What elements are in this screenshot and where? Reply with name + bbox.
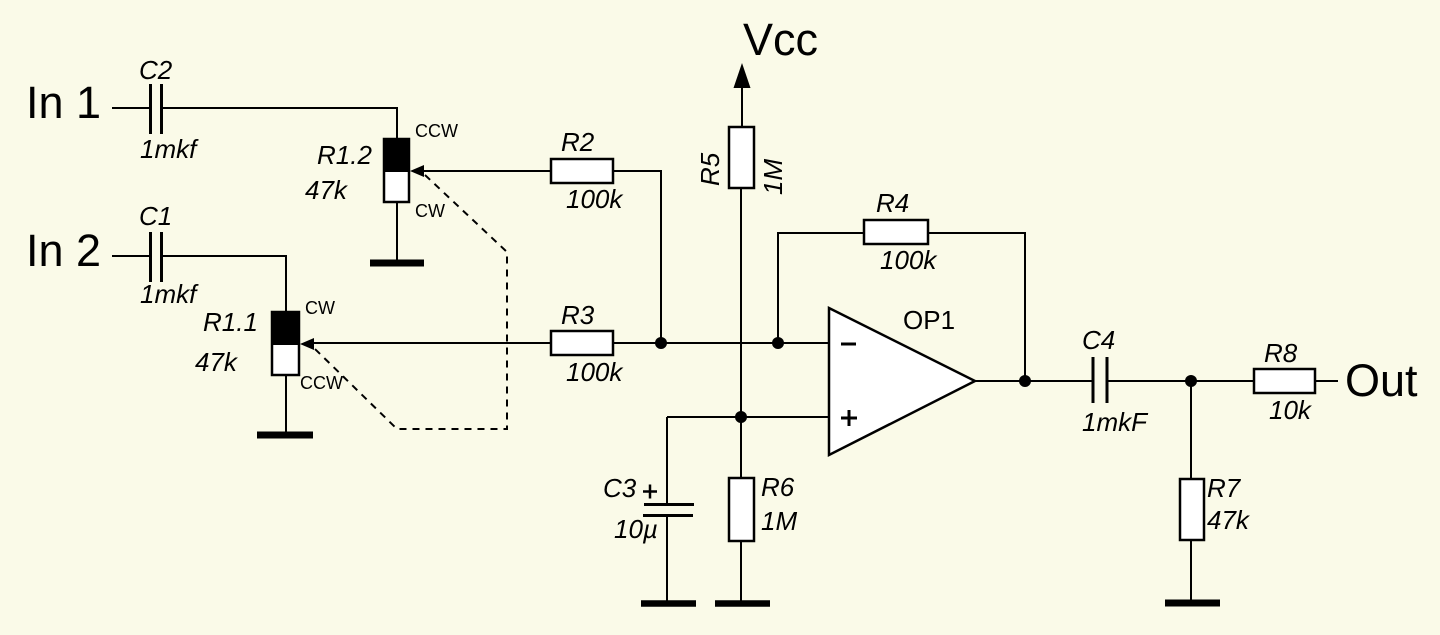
svg-text:CCW: CCW xyxy=(300,373,343,393)
svg-text:10µ: 10µ xyxy=(614,514,658,544)
capacitor C3 xyxy=(643,505,694,516)
wire In1 to C2 xyxy=(112,107,149,109)
svg-text:C3: C3 xyxy=(603,473,637,503)
wire R4 to output node xyxy=(928,233,1025,381)
svg-text:100k: 100k xyxy=(880,245,938,275)
resistor R2 xyxy=(551,159,613,183)
svg-text:R8: R8 xyxy=(1264,338,1298,368)
svg-text:CCW: CCW xyxy=(415,121,458,141)
resistor R7 xyxy=(1180,479,1204,540)
ground under R1.2 xyxy=(370,260,424,267)
svg-text:OP1: OP1 xyxy=(903,305,955,335)
svg-text:CW: CW xyxy=(415,201,445,221)
junction node inverting input / feedback xyxy=(772,337,784,349)
ground under R7 xyxy=(1165,600,1220,607)
svg-text:100k: 100k xyxy=(566,357,624,387)
wire R2 to inverting node xyxy=(613,171,661,343)
capacitor C4 xyxy=(1093,357,1107,403)
potentiometer R1.1 wiper arrow xyxy=(300,338,314,350)
potentiometer R1.2 wiper arrow xyxy=(410,165,424,177)
svg-text:R3: R3 xyxy=(561,300,595,330)
svg-text:C4: C4 xyxy=(1082,325,1115,355)
op-amp minus input symbol xyxy=(841,343,856,346)
wire R1.2 bottom to ground xyxy=(396,202,398,261)
junction node output xyxy=(1019,375,1031,387)
capacitor C1 xyxy=(151,232,162,282)
wire non-inverting node to op-amp + input xyxy=(667,416,829,418)
wire R6 to ground xyxy=(740,541,742,601)
wire C2 to R1.2 top xyxy=(163,108,397,139)
svg-text:47k: 47k xyxy=(195,347,239,377)
junction node output divider xyxy=(1185,375,1197,387)
svg-text:CW: CW xyxy=(305,298,335,318)
wire R8 to Out xyxy=(1315,380,1338,382)
junction node R2/R3 xyxy=(655,337,667,349)
svg-text:In 2: In 2 xyxy=(26,225,101,276)
resistor R8 xyxy=(1254,369,1315,393)
dashed gang link R1.2-R1.1 xyxy=(315,175,507,429)
Vcc arrow xyxy=(734,63,751,127)
wire In2 to C1 xyxy=(112,255,149,257)
svg-text:1M: 1M xyxy=(761,506,797,536)
op-amp plus input symbol xyxy=(841,410,857,426)
wire R5 bottom through crossing to non-inverting node xyxy=(740,188,742,478)
capacitor C3 wire from non-inverting node xyxy=(666,417,668,503)
svg-text:47k: 47k xyxy=(305,175,349,205)
svg-text:1mkf: 1mkf xyxy=(140,134,199,164)
wire C1 to R1.1 top xyxy=(163,256,286,312)
wire R3 to op-amp inverting input xyxy=(613,342,829,344)
svg-text:100k: 100k xyxy=(566,184,624,214)
wire C3 to ground xyxy=(666,517,668,601)
svg-text:R1.1: R1.1 xyxy=(203,307,258,337)
wire op-amp output to C4 xyxy=(975,380,1092,382)
potentiometer R1.1 xyxy=(271,311,300,375)
svg-text:C1: C1 xyxy=(139,201,172,231)
capacitor C2 xyxy=(151,84,162,134)
wire C4 to R8 xyxy=(1108,380,1254,382)
svg-text:R7: R7 xyxy=(1207,473,1242,503)
junction node non-inverting input xyxy=(735,411,747,423)
svg-text:1mkf: 1mkf xyxy=(140,279,199,309)
svg-text:1M: 1M xyxy=(758,159,788,195)
wire R1.1 wiper to R3 xyxy=(314,342,551,344)
resistor R3 xyxy=(551,331,613,355)
resistor R4 xyxy=(864,220,928,244)
resistor R6 xyxy=(729,478,754,541)
ground under R1.1 xyxy=(257,432,313,439)
potentiometer R1.2 xyxy=(383,138,410,202)
wire R1.2 wiper to R2 xyxy=(424,170,551,172)
svg-text:In 1: In 1 xyxy=(26,77,101,128)
svg-text:R5: R5 xyxy=(695,152,725,186)
svg-text:10k: 10k xyxy=(1269,395,1313,425)
svg-text:R1.2: R1.2 xyxy=(317,140,372,170)
wire R1.1 bottom to ground xyxy=(285,375,287,433)
ground under C3 xyxy=(641,600,696,607)
svg-text:R2: R2 xyxy=(561,127,595,157)
wire R7 to ground xyxy=(1190,540,1192,601)
svg-text:C2: C2 xyxy=(139,55,173,85)
ground under R6 xyxy=(715,600,770,607)
svg-text:Vcc: Vcc xyxy=(743,14,818,65)
svg-text:1mkF: 1mkF xyxy=(1082,407,1149,437)
wire output node down to R7 xyxy=(1190,381,1192,479)
capacitor C3 plus sign xyxy=(643,485,657,499)
op-amp OP1 xyxy=(829,308,975,455)
svg-text:Out: Out xyxy=(1345,355,1418,406)
wire feedback from inverting node up to R4 xyxy=(778,233,864,343)
svg-text:R6: R6 xyxy=(761,472,795,502)
svg-text:47k: 47k xyxy=(1207,505,1251,535)
resistor R5 xyxy=(729,127,754,188)
svg-text:R4: R4 xyxy=(876,188,909,218)
